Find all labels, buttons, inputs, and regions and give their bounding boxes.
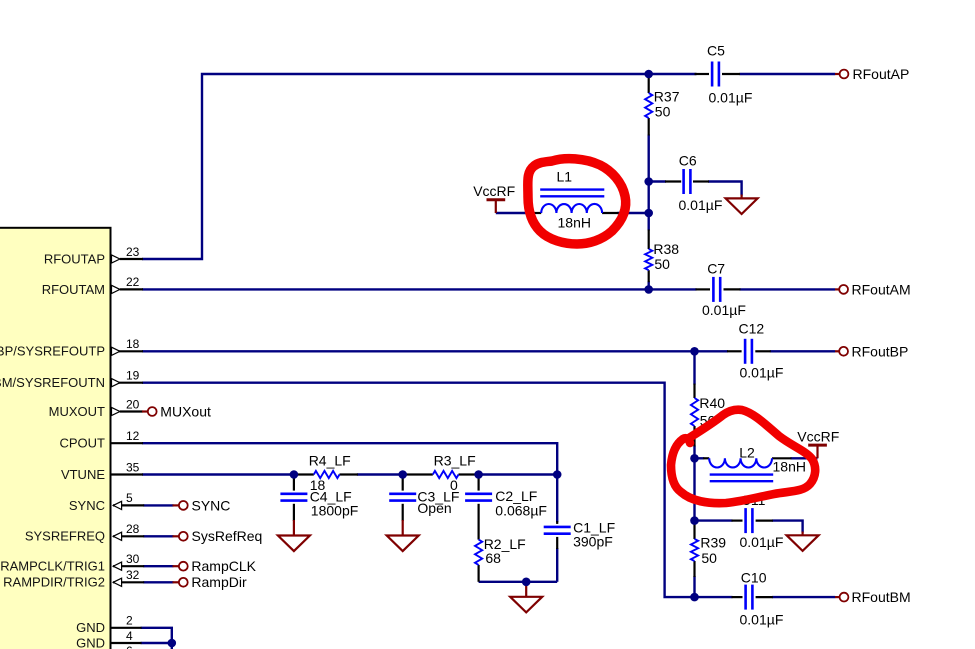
svg-text:23: 23 <box>126 245 140 259</box>
svg-text:18: 18 <box>126 337 140 351</box>
svg-text:Open: Open <box>417 500 451 516</box>
svg-text:SYNC: SYNC <box>69 498 105 513</box>
svg-text:4: 4 <box>126 629 133 643</box>
svg-text:50: 50 <box>655 103 671 119</box>
svg-text:RFOUTAP: RFOUTAP <box>44 251 105 266</box>
svg-text:SysRefReq: SysRefReq <box>192 528 263 544</box>
svg-text:6: 6 <box>126 644 133 649</box>
svg-text:RFoutAM: RFoutAM <box>852 281 911 297</box>
svg-text:RFOUTBP/SYSREFOUTP: RFOUTBP/SYSREFOUTP <box>0 344 105 359</box>
svg-text:0.01µF: 0.01µF <box>702 302 746 318</box>
svg-text:VccRF: VccRF <box>473 183 515 199</box>
svg-text:SYNC: SYNC <box>192 497 231 513</box>
svg-text:GND: GND <box>76 620 105 635</box>
svg-text:0.01µF: 0.01µF <box>709 90 753 106</box>
svg-text:R37: R37 <box>654 88 680 104</box>
svg-text:MUXOUT: MUXOUT <box>49 404 105 419</box>
svg-text:22: 22 <box>126 275 140 289</box>
svg-text:L1: L1 <box>557 168 573 184</box>
svg-text:RampDir: RampDir <box>191 574 247 590</box>
svg-text:390pF: 390pF <box>573 534 613 550</box>
svg-text:0.01µF: 0.01µF <box>679 197 723 213</box>
svg-text:C10: C10 <box>741 570 767 586</box>
svg-text:C6: C6 <box>679 153 697 169</box>
svg-text:C12: C12 <box>739 321 765 337</box>
svg-text:L2: L2 <box>739 444 755 460</box>
svg-text:R39: R39 <box>700 534 726 550</box>
svg-text:50: 50 <box>654 256 670 272</box>
svg-text:RFoutBM: RFoutBM <box>852 589 911 605</box>
svg-text:RAMPDIR/TRIG2: RAMPDIR/TRIG2 <box>3 575 105 590</box>
svg-text:18nH: 18nH <box>558 214 591 230</box>
svg-text:30: 30 <box>126 552 140 566</box>
svg-text:VccRF: VccRF <box>797 429 839 445</box>
svg-text:RFoutBP: RFoutBP <box>852 343 909 359</box>
svg-text:RampCLK: RampCLK <box>191 558 256 574</box>
svg-text:VTUNE: VTUNE <box>61 467 105 482</box>
svg-text:12: 12 <box>126 429 140 443</box>
svg-text:R40: R40 <box>699 395 725 411</box>
svg-text:0.01µF: 0.01µF <box>740 364 784 380</box>
svg-text:19: 19 <box>126 369 140 383</box>
svg-text:R4_LF: R4_LF <box>309 452 351 468</box>
svg-text:RFOUTBM/SYSREFOUTN: RFOUTBM/SYSREFOUTN <box>0 375 105 390</box>
svg-text:1800pF: 1800pF <box>311 503 358 519</box>
svg-text:0.068µF: 0.068µF <box>495 503 547 519</box>
svg-text:32: 32 <box>126 568 140 582</box>
svg-text:0.01µF: 0.01µF <box>740 611 784 627</box>
svg-text:2: 2 <box>126 614 133 628</box>
svg-text:SYSREFREQ: SYSREFREQ <box>25 529 105 544</box>
svg-text:50: 50 <box>701 550 717 566</box>
svg-text:GND: GND <box>76 635 105 649</box>
svg-text:CPOUT: CPOUT <box>60 436 106 451</box>
svg-text:0.01µF: 0.01µF <box>740 534 784 550</box>
svg-text:R38: R38 <box>653 241 679 257</box>
svg-text:35: 35 <box>126 460 140 474</box>
svg-text:RFOUTAM: RFOUTAM <box>42 282 105 297</box>
svg-text:68: 68 <box>485 550 501 566</box>
svg-text:5: 5 <box>126 491 133 505</box>
svg-text:20: 20 <box>126 397 140 411</box>
svg-text:R3_LF: R3_LF <box>434 452 476 468</box>
svg-text:28: 28 <box>126 522 140 536</box>
svg-text:RAMPCLK/TRIG1: RAMPCLK/TRIG1 <box>0 559 105 574</box>
svg-text:C7: C7 <box>707 260 725 276</box>
svg-text:C5: C5 <box>707 43 725 59</box>
svg-text:18nH: 18nH <box>773 458 806 474</box>
svg-text:MUXout: MUXout <box>160 403 211 419</box>
svg-text:RFoutAP: RFoutAP <box>853 66 910 82</box>
